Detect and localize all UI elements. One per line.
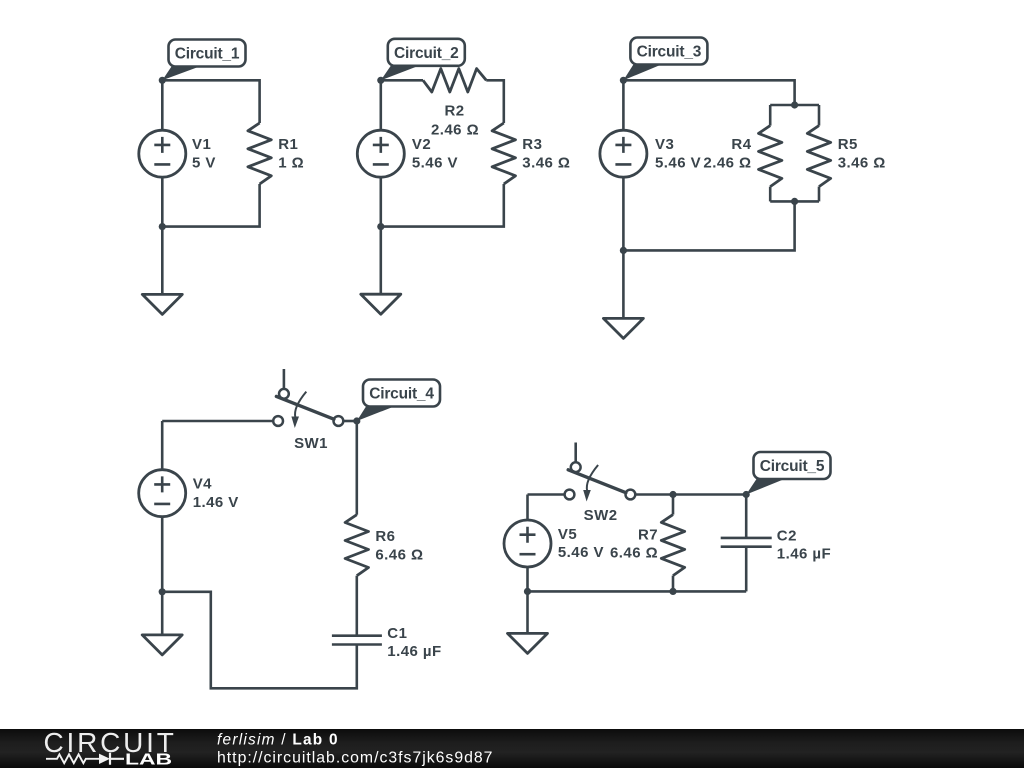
label Circuit_5 [746,452,830,495]
node B [743,491,750,498]
resistor R7 [661,495,684,592]
footer bar [0,729,1024,768]
svg-text:V5: V5 [558,526,577,543]
svg-text:Circuit_4: Circuit_4 [369,386,434,403]
wire [623,201,794,250]
footer title ferlisim / Lab 0 [217,732,339,749]
svg-text:R3: R3 [522,136,542,153]
svg-text:V3: V3 [655,136,674,153]
value label R4 2.46 ohm [703,136,751,171]
wire [343,420,357,423]
value label V2 5.46 V [412,136,458,171]
node A [620,77,627,84]
svg-text:R2: R2 [444,103,464,120]
voltage source V3 [600,80,647,250]
node D [620,247,627,254]
value label C1 1.46 uF [387,625,441,660]
wire [770,104,819,107]
wire [162,184,259,227]
logo resistor squiggle [46,754,99,763]
svg-text:V4: V4 [193,476,212,493]
ground [508,591,548,653]
switch SW1 [273,369,343,428]
value label R6 6.46 ohm [375,528,423,563]
value label V5 5.46 V [558,526,604,561]
ground [361,227,401,315]
value label R3 3.46 ohm [522,136,570,171]
svg-text:5 V: 5 V [192,154,216,171]
svg-text:6.46 Ω: 6.46 Ω [375,546,423,563]
value label V3 5.46 V [655,136,701,171]
svg-text:R1: R1 [278,136,298,153]
wire [528,493,565,496]
footer url [217,750,493,767]
node C [791,198,798,205]
value label R2 2.46 ohm [431,103,479,139]
node B [377,223,384,230]
logo diode [99,753,124,765]
svg-text:R7: R7 [638,526,658,543]
logo CIRCUIT text [44,727,177,758]
svg-text:http://circuitlab.com/c3fs7jk6: http://circuitlab.com/c3fs7jk6s9d87 [217,750,493,767]
svg-text:5.46 V: 5.46 V [655,154,701,171]
value label R5 3.46 ohm [838,136,886,171]
ground [142,227,182,315]
voltage source V2 [357,80,404,226]
svg-text:5.46 V: 5.46 V [558,544,604,561]
svg-text:R5: R5 [838,136,858,153]
wire [162,592,357,689]
wire [528,590,747,593]
label Circuit_3 [623,38,707,81]
svg-text:2.46 Ω: 2.46 Ω [431,121,479,138]
resistor R1 [248,123,271,184]
svg-text:1 Ω: 1 Ω [278,154,304,171]
wire [486,80,504,123]
svg-text:R6: R6 [375,528,395,545]
svg-text:SW2: SW2 [584,507,618,524]
switch SW2 [565,443,636,502]
svg-text:Circuit_5: Circuit_5 [760,458,825,475]
ground [142,592,182,655]
svg-text:5.46 V: 5.46 V [412,154,458,171]
value label R7 6.46 ohm [610,526,658,561]
label Circuit_1 [162,40,245,81]
capacitor C1 [332,636,382,645]
node A [159,77,166,84]
wire [770,200,819,203]
node B [791,101,798,108]
svg-text:C2: C2 [777,527,797,544]
resistor R5 [807,105,830,201]
svg-text:1.46 V: 1.46 V [193,494,239,511]
svg-text:C1: C1 [387,625,407,642]
value label V1 5 V [192,136,216,171]
ground [603,250,643,338]
node C [524,588,531,595]
wire [381,184,504,227]
node A [353,417,360,424]
svg-text:Circuit_2: Circuit_2 [394,45,459,62]
value label SW2 [584,507,618,524]
svg-text:R4: R4 [731,136,751,153]
label Circuit_4 [357,380,440,422]
resistor R3 [492,123,515,184]
node B [159,223,166,230]
wire [381,79,423,82]
value label SW1 [294,435,328,452]
wire [635,493,746,496]
voltage source V5 [504,495,551,592]
svg-text:1.46 µF: 1.46 µF [387,643,441,660]
node B [159,588,166,595]
value label V4 1.46 V [193,476,239,511]
resistor R6 [345,421,368,636]
voltage source V1 [139,80,186,226]
capacitor C2 [721,495,772,592]
resistor R2 [423,69,486,92]
svg-text:3.46 Ω: 3.46 Ω [838,154,886,171]
svg-text:V2: V2 [412,136,431,153]
svg-text:V1: V1 [192,136,211,153]
svg-text:LAB: LAB [125,751,172,768]
wire [623,80,794,105]
svg-text:2.46 Ω: 2.46 Ω [703,154,751,171]
svg-text:3.46 Ω: 3.46 Ω [522,154,570,171]
svg-text:1.46 µF: 1.46 µF [777,545,831,562]
wire [162,80,259,123]
wire [162,420,273,423]
label Circuit_2 [381,39,465,81]
node A [669,491,676,498]
node A [377,77,384,84]
svg-text:Circuit_3: Circuit_3 [637,44,702,61]
svg-text:ferlisim / Lab 0: ferlisim / Lab 0 [217,732,339,749]
voltage source V4 [139,421,186,592]
value label R1 1 ohm [278,136,304,171]
svg-text:6.46 Ω: 6.46 Ω [610,545,658,562]
svg-text:Circuit_1: Circuit_1 [175,46,240,63]
node D [669,588,676,595]
svg-text:SW1: SW1 [294,435,328,452]
logo LAB text [125,751,172,768]
resistor R4 [759,105,782,201]
value label C2 1.46 uF [777,527,831,562]
